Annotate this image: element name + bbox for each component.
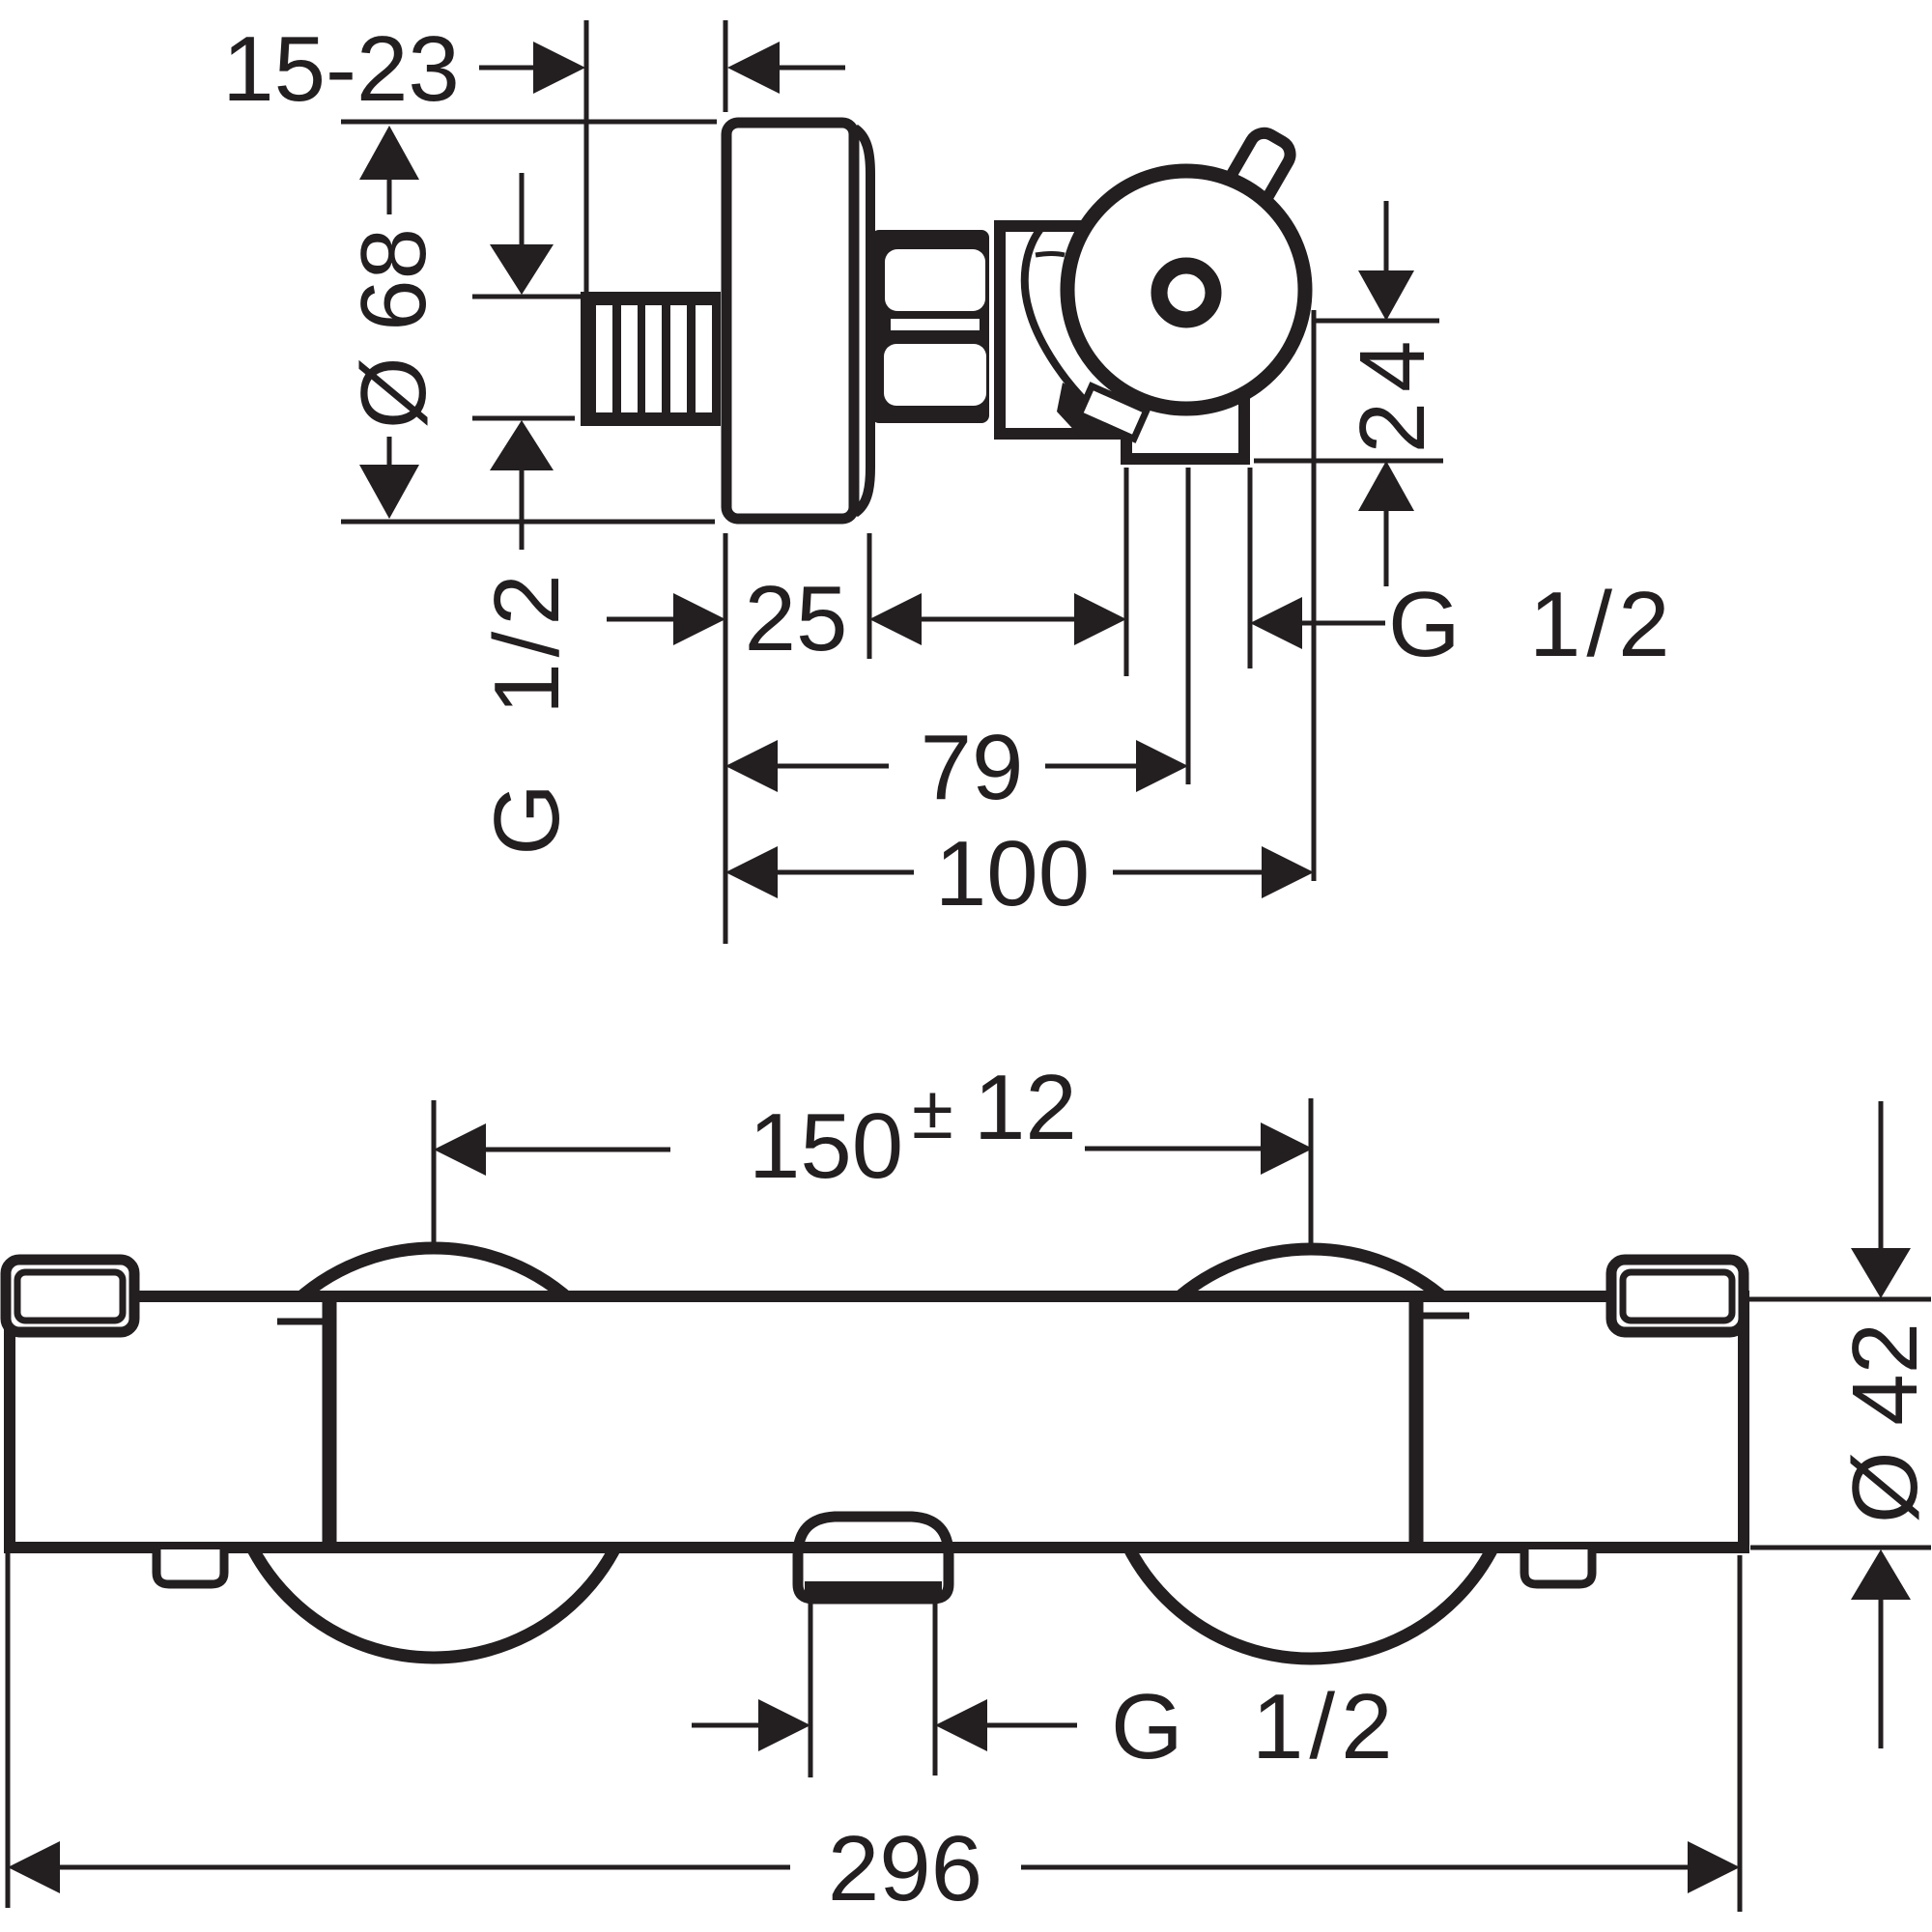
svg-text:Ø 68: Ø 68 bbox=[342, 228, 445, 429]
svg-text:Ø 42: Ø 42 bbox=[1833, 1322, 1932, 1523]
svg-text:G 1/2: G 1/2 bbox=[475, 568, 579, 855]
svg-text:100: 100 bbox=[935, 822, 1090, 925]
svg-text:12: 12 bbox=[974, 1056, 1077, 1159]
svg-text:G 1/2: G 1/2 bbox=[1388, 573, 1675, 676]
svg-text:150: 150 bbox=[749, 1094, 903, 1198]
svg-text:296: 296 bbox=[828, 1817, 982, 1920]
svg-text:79: 79 bbox=[921, 716, 1024, 819]
svg-text:24: 24 bbox=[1341, 331, 1444, 454]
svg-text:±: ± bbox=[912, 1069, 953, 1154]
svg-text:15-23: 15-23 bbox=[222, 17, 460, 121]
svg-text:G 1/2: G 1/2 bbox=[1111, 1675, 1398, 1778]
svg-text:25: 25 bbox=[745, 567, 848, 670]
